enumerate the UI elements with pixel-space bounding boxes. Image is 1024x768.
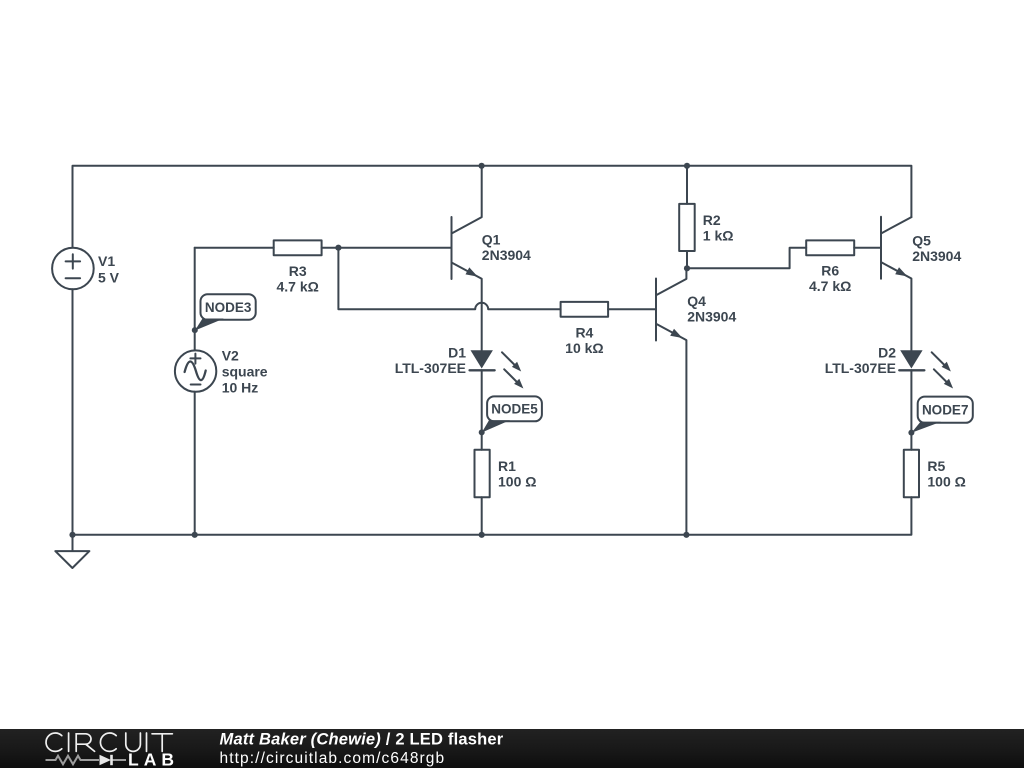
svg-text:1 kΩ: 1 kΩ (703, 227, 734, 243)
svg-text:R6: R6 (821, 263, 839, 279)
svg-text:NODE7: NODE7 (922, 403, 969, 418)
svg-text:2N3904: 2N3904 (482, 247, 531, 263)
svg-text:100 Ω: 100 Ω (498, 473, 536, 489)
svg-text:D1: D1 (448, 344, 466, 360)
svg-text:http://circuitlab.com/c648rgb: http://circuitlab.com/c648rgb (220, 750, 446, 767)
svg-text:LTL-307EE: LTL-307EE (395, 360, 466, 376)
svg-text:V2: V2 (222, 347, 239, 363)
svg-text:2N3904: 2N3904 (687, 309, 736, 325)
svg-text:NODE5: NODE5 (491, 402, 538, 417)
svg-text:10 Hz: 10 Hz (222, 379, 259, 395)
svg-text:Q1: Q1 (482, 232, 501, 248)
svg-text:V1: V1 (98, 253, 115, 269)
svg-text:2N3904: 2N3904 (912, 248, 961, 264)
svg-text:LAB: LAB (128, 749, 179, 768)
svg-text:Q5: Q5 (912, 233, 931, 249)
svg-text:R2: R2 (703, 212, 721, 228)
svg-text:100 Ω: 100 Ω (927, 473, 965, 489)
svg-text:10 kΩ: 10 kΩ (565, 340, 603, 356)
svg-text:R5: R5 (927, 458, 945, 474)
svg-text:4.7 kΩ: 4.7 kΩ (809, 278, 851, 294)
svg-text:4.7 kΩ: 4.7 kΩ (277, 279, 319, 295)
svg-text:NODE3: NODE3 (205, 300, 252, 315)
svg-text:R4: R4 (575, 324, 593, 340)
svg-text:D2: D2 (878, 344, 896, 360)
svg-text:Matt Baker (Chewie) / 2 LED fl: Matt Baker (Chewie) / 2 LED flasher (220, 731, 504, 749)
svg-text:5 V: 5 V (98, 269, 120, 285)
svg-text:LTL-307EE: LTL-307EE (825, 360, 896, 376)
svg-text:square: square (222, 363, 268, 379)
svg-text:Q4: Q4 (687, 293, 706, 309)
svg-text:R3: R3 (289, 263, 307, 279)
svg-text:R1: R1 (498, 458, 516, 474)
